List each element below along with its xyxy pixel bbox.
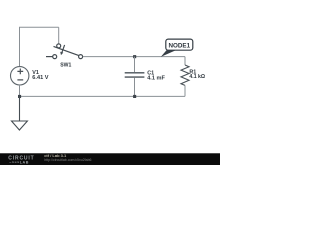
node junction dot top of C1: [133, 55, 136, 58]
wire top horizontal: [19, 26, 59, 28]
capacitor C1: [125, 57, 145, 97]
NODE1 flag tail: [161, 50, 176, 57]
svg-text:–≈≡≈LAB: –≈≡≈LAB: [9, 160, 29, 164]
C1 bottom plate: [125, 76, 145, 78]
svg-text:4.1 kΩ: 4.1 kΩ: [189, 74, 205, 80]
wire C1 bottom: [134, 78, 136, 97]
wire C1 top: [134, 57, 136, 72]
C1 top plate: [125, 72, 145, 74]
svg-text:4.1 mF: 4.1 mF: [147, 76, 165, 82]
switch lever: [54, 46, 79, 55]
footer bar: [0, 154, 220, 166]
CircuitLab logo: [8, 156, 34, 165]
wire R1 bottom: [184, 85, 186, 96]
svg-text:SW1: SW1: [60, 63, 71, 69]
switch right contact circle: [79, 55, 83, 59]
switch pivot circle top: [57, 44, 61, 48]
voltage source V1: [11, 67, 29, 85]
ground: [12, 96, 28, 130]
svg-text:http://circuitlab.com/c5xu2fab: http://circuitlab.com/c5xu2fab6: [44, 158, 91, 162]
R1 zigzag body: [181, 65, 189, 85]
junction dot left bottom: [18, 95, 21, 98]
svg-text:NODE1: NODE1: [168, 43, 190, 50]
wire bottom rail: [20, 95, 186, 97]
wire R1 top: [184, 57, 186, 65]
switch arrow: [62, 45, 65, 53]
wire top rail switch to R1 corner: [83, 56, 185, 58]
junction dot C1 bottom: [133, 95, 136, 98]
NODE1 flag box: [166, 39, 193, 50]
wire V1 bottom to ground junction: [19, 85, 21, 96]
switch SW1: [46, 44, 83, 59]
wire down to switch pivot: [58, 27, 60, 43]
wire V1 top to corner up: [19, 27, 21, 66]
switch left stub: [46, 56, 53, 58]
resistor R1: [181, 57, 189, 97]
svg-text:6.41 V: 6.41 V: [32, 75, 48, 81]
switch left contact circle: [53, 55, 57, 59]
